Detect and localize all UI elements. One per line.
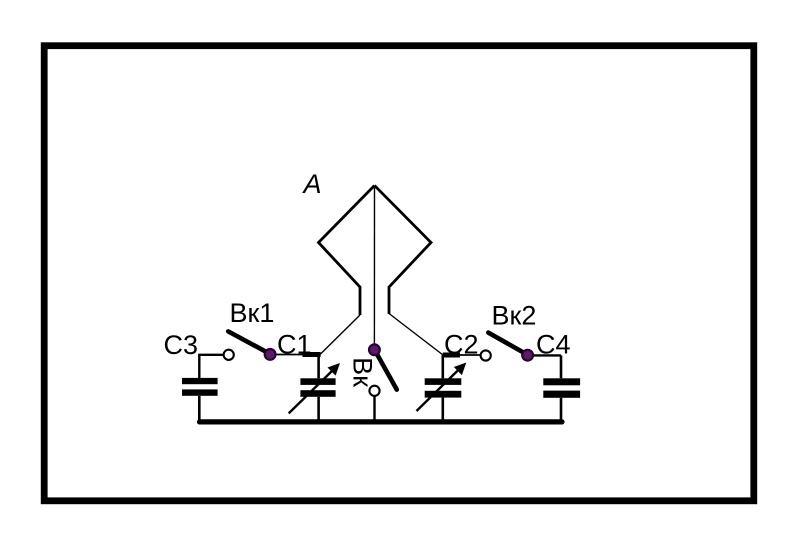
switch Bk1 contact circle <box>224 350 234 360</box>
svg-text:Вк: Вк <box>348 357 378 387</box>
wire: C4 bottom to bus <box>560 398 563 422</box>
svg-text:Вк1: Вк1 <box>230 298 275 328</box>
switch Bk2 contact circle <box>481 350 491 360</box>
switch Bk1 pivot dot <box>265 349 276 360</box>
wire: C3 bottom to bus <box>198 396 201 422</box>
capacitor C1 (variable) <box>300 378 335 397</box>
switch Bk1 lever <box>228 331 269 353</box>
switch Bk2 lever <box>488 333 527 355</box>
wire: bottom bus <box>200 419 563 424</box>
wire: C3 top to switch Bk1 circle <box>199 355 223 378</box>
capacitor C3 <box>182 378 218 396</box>
C2 variable arrow <box>417 369 460 412</box>
node: C1 junction stub <box>303 352 321 357</box>
C1 variable arrow <box>289 370 334 414</box>
wire: C2 junction to switch Bk2 circle <box>460 354 480 356</box>
wire: C1 junction down to plates <box>317 355 320 379</box>
wire: Bk1 dot to C1 junction <box>270 354 303 356</box>
svg-text:A: A <box>302 169 322 199</box>
svg-text:C4: C4 <box>536 330 571 360</box>
svg-text:C2: C2 <box>444 330 479 360</box>
antenna A (rhombic outline) <box>319 186 432 316</box>
wire: antenna left leg to C1 junction <box>320 315 360 355</box>
wire: antenna right leg to C2 junction <box>389 314 443 356</box>
wire: C2 junction down to plates <box>441 355 444 378</box>
switch Bk2 pivot dot <box>522 350 533 361</box>
wire: C2 bottom to bus <box>441 398 444 422</box>
wire: Bk2 dot to C4 <box>528 354 561 356</box>
switch Bk pivot dot <box>369 344 380 355</box>
wire: antenna feed center line <box>373 186 375 346</box>
capacitor C2 (variable) <box>425 378 462 397</box>
wire: C4 top vertical <box>560 355 563 378</box>
svg-text:Вк2: Вк2 <box>492 301 537 331</box>
switch Bk lever <box>375 350 397 389</box>
wire: Bk circle to bus <box>373 396 375 422</box>
svg-text:C3: C3 <box>164 330 199 360</box>
switch Bk contact circle <box>369 386 379 396</box>
wire: C1 bottom to bus <box>317 397 320 422</box>
svg-text:C1: C1 <box>277 330 312 360</box>
capacitor C4 <box>543 378 580 398</box>
node: C2 junction stub <box>443 353 460 358</box>
